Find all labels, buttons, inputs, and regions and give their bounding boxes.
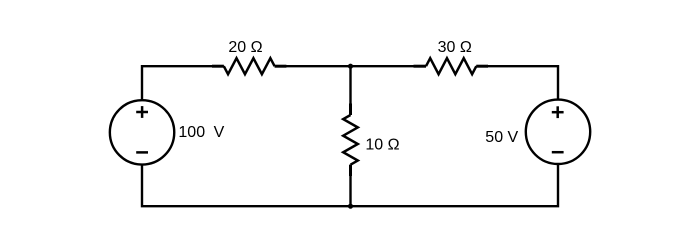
- node B junction dot (bottom middle): [348, 204, 353, 209]
- R1 pin lead right: [275, 65, 287, 68]
- wire: V1 positive terminal up to top-left corner across to R1: [142, 66, 224, 101]
- svg-text:100: 100: [178, 124, 205, 141]
- svg-text:20 Ω: 20 Ω: [228, 39, 262, 56]
- svg-text:10 Ω: 10 Ω: [365, 137, 399, 154]
- node A junction dot (top middle): [348, 64, 353, 69]
- resistor R3 10 ohm (vertical zigzag, middle branch): [343, 115, 358, 165]
- svg-text:50 V: 50 V: [485, 129, 518, 146]
- voltage source V1 100 V (circle): [110, 100, 174, 164]
- R3 pin lead top: [349, 104, 352, 116]
- wire: node A down to R3 top terminal: [349, 66, 351, 115]
- R3 pin lead bottom: [349, 165, 352, 176]
- resistor R2 30 ohm (horizontal zigzag, top right branch): [426, 58, 476, 74]
- svg-text:30 Ω: 30 Ω: [438, 39, 472, 56]
- V2 plus sign: [552, 111, 564, 114]
- wire: node A to R2 left terminal: [351, 65, 427, 67]
- V1 minus sign: [136, 151, 148, 154]
- wire: V2 negative terminal down to bottom-right corner across to node B: [351, 165, 559, 207]
- svg-text:V: V: [214, 124, 225, 141]
- voltage source V2 50 V (circle): [526, 100, 590, 164]
- V2 minus sign: [552, 151, 564, 154]
- R1 pin lead left: [212, 65, 224, 68]
- wire: R2 right terminal to top-right corner down to V2 positive terminal: [476, 66, 558, 100]
- wire: R1 right terminal to node A: [275, 65, 351, 67]
- R2 pin lead left: [414, 65, 427, 68]
- R2 pin lead right: [476, 65, 488, 68]
- wire: V1 negative terminal down to bottom-left corner across to node B: [142, 165, 351, 206]
- V1 plus sign: [136, 111, 148, 114]
- resistor R1 20 ohm (horizontal zigzag, top left branch): [224, 58, 275, 74]
- wire: R3 bottom terminal down to node B: [349, 165, 351, 207]
